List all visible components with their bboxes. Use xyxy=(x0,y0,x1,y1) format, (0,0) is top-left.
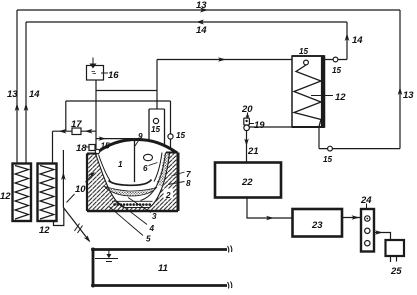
valve circle 15 burner xyxy=(95,149,99,153)
arrow drain diagonal end xyxy=(84,236,91,243)
box 24 xyxy=(361,209,374,252)
regenerator column 12 left xyxy=(13,164,32,222)
regulator 19 xyxy=(244,118,250,131)
valve circle 15 right of duct xyxy=(168,134,173,139)
valve circle 15 in duct xyxy=(153,118,158,123)
wire device17 horizontal line xyxy=(53,130,97,132)
svg-text:15: 15 xyxy=(101,142,111,151)
svg-text:23: 23 xyxy=(311,220,323,231)
leader label3 xyxy=(128,198,151,213)
wire regulator19 line to exchanger xyxy=(250,126,293,128)
wire header line2 xyxy=(66,100,171,102)
arrow box23 to 24 xyxy=(352,215,360,220)
arrow line13 top xyxy=(200,8,208,13)
lining curve 8 right xyxy=(154,153,162,182)
wire line13 left vertical xyxy=(16,10,18,163)
svg-text:12: 12 xyxy=(335,92,346,103)
svg-text:3: 3 xyxy=(152,212,157,221)
svg-text:14: 14 xyxy=(352,35,363,46)
regenerator column 12 right xyxy=(38,164,57,222)
svg-text:19: 19 xyxy=(254,120,265,131)
wire label19 leader xyxy=(250,123,254,125)
gas bubble 6 xyxy=(144,154,153,160)
line above grate xyxy=(112,200,153,202)
leader label7 xyxy=(172,172,185,176)
quench bath 11 xyxy=(93,250,227,286)
valve circle 15 exchanger top xyxy=(304,60,309,65)
wire bottom line to 13 riser xyxy=(319,148,400,150)
arrow 20 down xyxy=(246,116,250,120)
wire 21 line into box22 xyxy=(246,131,248,163)
svg-text:1: 1 xyxy=(118,160,123,169)
melt stipple lens 3 xyxy=(105,187,157,197)
svg-text:18: 18 xyxy=(76,143,87,154)
wire label24 tick xyxy=(366,204,368,209)
valve circle 15 on line14 xyxy=(333,57,338,62)
arrow line14 right up xyxy=(345,33,350,41)
arrow 21 down xyxy=(244,139,249,147)
arrow box24 to 25 xyxy=(375,230,383,235)
wire line14 left vertical xyxy=(25,22,27,163)
arrow device17 line left b xyxy=(85,129,93,134)
wire lance vertical 9 xyxy=(134,139,136,182)
bowl inner face right curve xyxy=(124,153,170,208)
svg-text:12: 12 xyxy=(39,225,50,236)
svg-text:17: 17 xyxy=(71,119,82,130)
arrow line14 top xyxy=(196,20,204,25)
bath break marks bottom xyxy=(228,282,232,289)
wire box24 to box25 xyxy=(374,233,391,241)
arrow line14 left up xyxy=(24,103,29,111)
furnace roof arch xyxy=(95,140,177,155)
arrow lance feed right xyxy=(99,136,107,140)
svg-text:15: 15 xyxy=(151,125,161,134)
leader label10 upper with arrow xyxy=(86,175,93,183)
svg-text:24: 24 xyxy=(360,195,372,206)
lining curve left inner xyxy=(99,155,112,184)
bowl inner face left curve xyxy=(96,154,124,208)
wire duct riser vertical xyxy=(156,60,158,110)
grate dotted row 4 xyxy=(113,203,151,206)
bath break marks top xyxy=(228,246,232,253)
leader label8 xyxy=(168,182,185,185)
wire flue gas duct horizontal to exchanger xyxy=(157,59,292,61)
wire line14 top horizontal xyxy=(26,21,347,23)
svg-text:14: 14 xyxy=(29,89,40,100)
wire drain diagonal to bath xyxy=(63,208,89,242)
arrow line13 left up xyxy=(15,103,20,111)
box 22 xyxy=(215,163,281,198)
lining curve 7 right xyxy=(141,153,166,201)
wire branch to device17 line xyxy=(65,101,67,131)
furnace hatched body 2 xyxy=(87,153,178,212)
svg-text:2: 2 xyxy=(165,191,171,200)
svg-text:13: 13 xyxy=(7,89,18,100)
svg-text:13: 13 xyxy=(403,90,414,101)
leader label6 xyxy=(149,163,158,166)
wire label12 leader right exchanger xyxy=(311,95,333,97)
arrow line13 right up xyxy=(398,87,403,95)
leader label9 xyxy=(135,138,141,147)
svg-text:7: 7 xyxy=(186,170,191,179)
box 25 xyxy=(386,240,405,256)
wire 20 inlet stub xyxy=(247,113,249,118)
wire label16 leader xyxy=(101,72,108,74)
svg-text:5: 5 xyxy=(146,235,151,244)
svg-text:15: 15 xyxy=(176,131,186,140)
wire line14 right vertical xyxy=(346,22,348,60)
svg-text:21: 21 xyxy=(247,146,259,157)
leader label4 xyxy=(117,202,147,225)
arrow box22 to 23 xyxy=(266,216,274,221)
svg-text:22: 22 xyxy=(241,177,253,188)
stipple band along right lining 8 xyxy=(159,154,168,186)
svg-text:15: 15 xyxy=(332,66,342,75)
wire line13 top horizontal xyxy=(17,9,400,11)
leader label5 xyxy=(109,207,143,236)
wire drain vertical from burner area xyxy=(62,150,64,208)
box 23 xyxy=(293,209,343,237)
heat exchanger 12 right xyxy=(292,56,325,127)
drain break marks xyxy=(75,224,83,234)
arrow flue duct right xyxy=(218,57,226,62)
svg-text:25: 25 xyxy=(390,266,402,277)
wire box25 bottom ticks xyxy=(391,256,397,262)
wire line13 right vertical xyxy=(399,10,401,149)
svg-text:15: 15 xyxy=(299,47,309,56)
burner box 18 xyxy=(89,145,95,151)
svg-text:15: 15 xyxy=(323,155,333,164)
svg-text:6: 6 xyxy=(143,164,148,173)
wire exchanger bottom outlet xyxy=(318,127,320,149)
svg-text:16: 16 xyxy=(108,70,119,81)
svg-text:11: 11 xyxy=(158,263,168,274)
svg-text:10: 10 xyxy=(75,184,86,195)
svg-text:13: 13 xyxy=(196,0,207,11)
wire drop to column2 top xyxy=(52,131,54,163)
arrow drain up xyxy=(61,172,66,180)
wire column2 bottom U-connection xyxy=(54,208,64,226)
svg-text:4: 4 xyxy=(149,224,155,233)
svg-text:8: 8 xyxy=(186,179,191,188)
charging duct walls xyxy=(149,109,165,146)
melt surface line xyxy=(109,180,152,186)
wire lance feed horizontal xyxy=(96,138,135,140)
device box 17 xyxy=(72,128,81,135)
furnace outline edges xyxy=(87,153,178,212)
valve circle 15 on bottom line xyxy=(328,146,333,151)
svg-text:20: 20 xyxy=(241,104,253,115)
wire box23 to box24 xyxy=(342,217,360,219)
wire box22 outlet xyxy=(247,198,293,219)
wire hopper feed vertical xyxy=(95,80,97,149)
svg-text:14: 14 xyxy=(196,25,207,36)
hopper box 16 xyxy=(87,58,104,81)
water level symbol xyxy=(95,250,118,262)
label background 2 xyxy=(164,189,174,199)
arrow device17 line left a xyxy=(59,129,67,134)
wire line14 to exchanger top xyxy=(324,59,347,61)
svg-text:12: 12 xyxy=(0,191,11,202)
svg-text:9: 9 xyxy=(138,132,143,141)
wire label18 leader xyxy=(85,146,90,148)
leader label10 lower xyxy=(67,194,75,203)
wire header line1 xyxy=(96,90,157,92)
wire line2 drop right of duct xyxy=(170,101,172,148)
coil zigzag xyxy=(294,65,321,127)
